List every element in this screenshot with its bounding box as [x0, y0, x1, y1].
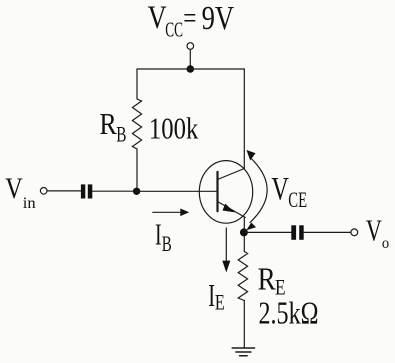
wire output node to C2 — [244, 231, 291, 233]
terminal Vin — [40, 188, 47, 195]
svg-text:B: B — [162, 231, 172, 256]
svg-text:100k: 100k — [149, 111, 199, 146]
arc VCE — [246, 150, 267, 230]
svg-text:in: in — [23, 195, 36, 212]
label RB — [99, 106, 126, 146]
svg-text:=: = — [183, 0, 196, 35]
label IE — [208, 277, 225, 314]
transistor Q1 — [199, 161, 252, 224]
label Vo — [366, 213, 389, 252]
wire RB to base node — [136, 149, 138, 191]
wire left drop to RB — [136, 69, 138, 99]
label RE — [258, 261, 286, 300]
wire top rail — [137, 68, 244, 70]
resistor RB — [132, 99, 141, 149]
svg-text:V: V — [271, 172, 289, 208]
ground — [232, 348, 254, 356]
arrow IE — [222, 228, 230, 273]
terminal Vcc — [187, 43, 194, 50]
svg-text:o: o — [382, 235, 389, 252]
junction top node — [187, 65, 195, 73]
svg-text:R: R — [99, 106, 117, 141]
svg-text:V: V — [5, 172, 23, 205]
svg-text:CE: CE — [288, 187, 307, 212]
wire Vin terminal to C1 — [47, 190, 81, 192]
wire C1 to base node — [92, 190, 136, 192]
svg-text:B: B — [116, 121, 126, 146]
wire C2 to Vo terminal — [304, 231, 351, 233]
wire collector drop — [243, 69, 245, 169]
arrow IB — [153, 209, 189, 217]
terminal Vo — [351, 229, 358, 236]
junction output node — [240, 228, 248, 236]
resistor RE — [238, 252, 247, 301]
label VCE — [271, 172, 307, 213]
wire base node to transistor base — [137, 190, 218, 192]
wire RE to ground — [243, 301, 245, 348]
wire emitter drop — [243, 217, 245, 252]
svg-text:R: R — [258, 261, 277, 297]
capacitor C1 — [81, 184, 92, 198]
junction base node — [133, 188, 140, 195]
svg-text:V: V — [148, 0, 167, 36]
svg-text:CC: CC — [165, 18, 183, 42]
label Vcc = 9V — [148, 0, 235, 42]
label Vin — [5, 172, 36, 212]
svg-text:V: V — [366, 213, 382, 248]
svg-text:9V: 9V — [202, 0, 235, 37]
svg-text:2.5kΩ: 2.5kΩ — [259, 295, 319, 331]
wire Vcc terminal to rail — [189, 49, 191, 69]
svg-text:I: I — [155, 216, 162, 251]
label IB — [155, 216, 172, 255]
svg-text:E: E — [215, 289, 225, 314]
capacitor C2 — [291, 225, 303, 240]
